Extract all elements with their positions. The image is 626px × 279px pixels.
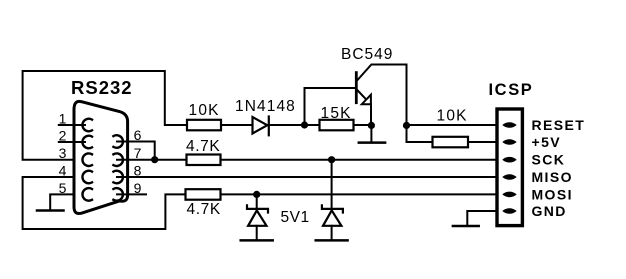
svg-text:9: 9 — [134, 180, 142, 196]
svg-text:1N4148: 1N4148 — [235, 98, 296, 115]
diode 1N4148 — [253, 117, 269, 136]
connector RS232 body — [74, 101, 128, 213]
svg-text:RS232: RS232 — [71, 77, 133, 98]
resistor 15K body — [320, 120, 354, 131]
wire pin4 loop under connector to second 4.7K — [23, 177, 186, 229]
wire pin5 to ground — [50, 194, 74, 210]
svg-text:BC549: BC549 — [341, 46, 393, 63]
pin 2 contact — [82, 136, 92, 149]
ground (emitter) — [359, 141, 385, 144]
wire 10K pullup to ICSP +5V — [468, 141, 495, 143]
pin 7 contact — [113, 153, 123, 166]
pin 6 contact — [113, 135, 123, 148]
pin 9 contact — [113, 188, 123, 201]
svg-text:3: 3 — [59, 145, 67, 161]
svg-text:5V1: 5V1 — [281, 209, 310, 226]
resistor 4.7K body (MOSI) — [186, 189, 221, 200]
wire collector node down to 10K pullup — [407, 125, 433, 142]
wire pin8 to ICSP MISO — [117, 176, 495, 178]
wire SCK net to ICSP — [221, 159, 496, 161]
transistor emitter — [357, 90, 366, 100]
pin 5 contact — [82, 188, 92, 201]
wire collector node to ICSP RESET — [407, 124, 496, 126]
transistor Q1 BC549 base bar — [355, 73, 358, 103]
svg-text:10K: 10K — [189, 102, 220, 119]
ground (ICSP) — [453, 225, 479, 228]
svg-text:2: 2 — [59, 128, 67, 144]
wire pin3 loop over connector to 10K — [23, 71, 187, 160]
junction emitter node — [368, 122, 375, 129]
svg-text:8: 8 — [134, 163, 142, 179]
pin 1 lead — [59, 124, 85, 126]
svg-text:MISO: MISO — [532, 169, 573, 185]
junction pin6/pin7 — [151, 156, 158, 163]
svg-text:ICSP: ICSP — [489, 81, 534, 99]
wire pin9 stub — [117, 193, 146, 195]
junction zener D2 / SCK — [328, 156, 335, 163]
junction collector node — [403, 122, 410, 129]
wire node A up to base — [305, 88, 357, 125]
svg-text:10K: 10K — [437, 108, 468, 125]
wire pin6 down to pin7 net — [117, 142, 155, 160]
ICSP gnd wire — [467, 211, 495, 226]
pin 1 contact — [82, 119, 92, 132]
svg-text:+5V: +5V — [532, 134, 562, 150]
ground (pin5) — [37, 209, 64, 212]
svg-text:SCK: SCK — [532, 152, 566, 168]
svg-text:GND: GND — [532, 203, 567, 219]
junction zener D1 / MOSI — [253, 191, 260, 198]
resistor 10K pullup body — [433, 137, 469, 148]
wire pin7 to resistor — [117, 159, 187, 161]
svg-text:15K: 15K — [321, 105, 352, 122]
resistor 4.7K body (SCK) — [187, 155, 221, 166]
svg-text:5: 5 — [59, 180, 67, 196]
wire 10K to diode — [221, 124, 253, 126]
resistor 10K body — [187, 120, 221, 131]
pin 4 contact — [82, 171, 92, 184]
wire 15K to emitter node — [354, 124, 372, 126]
wire diode to node A — [269, 124, 305, 126]
svg-text:MOSI: MOSI — [532, 186, 573, 202]
svg-text:4: 4 — [59, 163, 67, 179]
svg-text:1: 1 — [59, 111, 67, 127]
svg-text:RESET: RESET — [532, 117, 586, 133]
svg-text:6: 6 — [134, 127, 142, 143]
pin 2 lead — [59, 141, 85, 143]
connector ICSP body — [497, 109, 522, 226]
wire emitter to ground — [370, 125, 372, 142]
transistor collector — [358, 65, 407, 126]
svg-text:4.7K: 4.7K — [186, 138, 220, 155]
svg-text:7: 7 — [134, 145, 142, 161]
pin 8 contact — [113, 171, 123, 184]
zener D2 5V1 — [316, 160, 348, 241]
wire A to 15K — [305, 124, 320, 126]
wire MOSI net to ICSP — [221, 193, 496, 195]
ICSP pin contacts — [502, 122, 516, 214]
pin 3 contact — [82, 153, 92, 166]
emitter arrowhead — [362, 95, 371, 105]
svg-text:4.7K: 4.7K — [187, 201, 221, 218]
zener D1 5V1 — [241, 194, 273, 240]
junction node A — [301, 121, 308, 128]
